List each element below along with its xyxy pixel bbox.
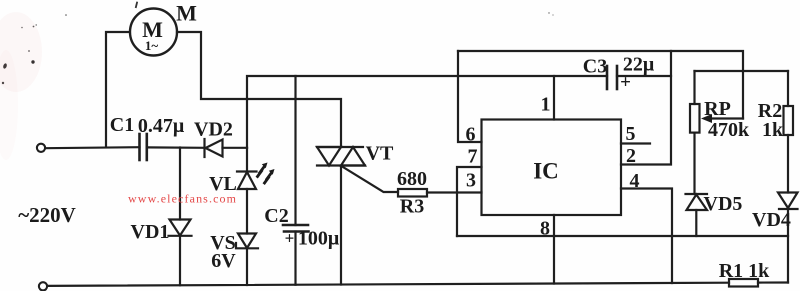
svg-text:6: 6 (466, 124, 476, 146)
label VS 6V (210, 232, 236, 272)
svg-text:470k: 470k (708, 119, 750, 141)
wire: R3 to IC pin 3 (427, 191, 482, 193)
wire: VD2 to node B (223, 147, 248, 149)
wire: RP top to R2 top (695, 70, 789, 72)
svg-text:+: + (620, 72, 631, 93)
svg-text:1k: 1k (762, 119, 784, 141)
svg-text:VD4: VD4 (752, 209, 791, 231)
svg-text:C1: C1 (110, 114, 134, 136)
label C1 0.47u (110, 114, 185, 137)
wire: pin 4 stub down to bottom rail (621, 189, 672, 284)
wire: pin 2 stub up right box rail (621, 51, 671, 165)
svg-text:4: 4 (630, 170, 640, 192)
label R2 1k (758, 100, 784, 141)
svg-text:~220V: ~220V (18, 203, 76, 227)
svg-text:VT: VT (366, 143, 394, 165)
scan specks (decorative) (2, 1, 554, 84)
wire: pin 5 stub (621, 142, 650, 144)
wire: motor right lead to VT top (177, 32, 341, 147)
svg-text:VD5: VD5 (704, 193, 743, 215)
svg-text:1~: 1~ (145, 38, 159, 53)
svg-text:680: 680 (397, 168, 427, 190)
svg-text:5: 5 (626, 123, 636, 145)
wire: motor left lead down to top rail (106, 32, 130, 147)
wire: C1 to VD2 (147, 146, 204, 149)
node: AC input top terminal (37, 144, 45, 152)
wire: node B up and across to C3 (supply line) (247, 76, 607, 148)
diode VD5 (686, 194, 708, 236)
svg-text:R3: R3 (400, 196, 424, 218)
wire: pin 1 to supply line (553, 76, 555, 120)
label C2 + 100u (264, 205, 340, 250)
svg-text:0.47μ: 0.47μ (138, 115, 185, 137)
svg-text:2: 2 (626, 145, 636, 167)
zener VS (236, 234, 258, 286)
wire: bottom rail left of R1 (48, 283, 730, 286)
label RP 470k (704, 98, 750, 141)
LED VL (237, 148, 257, 234)
LED VL light arrows (258, 166, 272, 183)
wire: RP wiper arrow (701, 114, 743, 123)
svg-text:C3: C3 (583, 56, 607, 78)
svg-text:1: 1 (541, 94, 551, 116)
wire: pin 6 stub and left box rail (458, 51, 482, 142)
motor M1 (130, 9, 177, 56)
label M inside motor (142, 17, 163, 53)
triac VT (317, 147, 398, 285)
wire: bottom rail right of R1 (758, 281, 788, 283)
svg-text:100μ: 100μ (298, 228, 340, 250)
node: AC input bottom terminal (39, 282, 47, 290)
wire: lower horizontal net pin7-pin4-VD5-VD4 (457, 235, 788, 237)
potentiometer RP 470k (690, 71, 700, 194)
svg-text:VD1: VD1 (131, 221, 170, 243)
resistor R3 680 (398, 189, 427, 197)
resistor R2 1k (784, 71, 794, 193)
svg-text:R1 1k: R1 1k (719, 260, 770, 282)
capacitor C1 0.47u (140, 134, 147, 160)
svg-text:RP: RP (704, 98, 731, 120)
label 680 / R3 (397, 168, 427, 218)
resistor R1 1k (729, 279, 758, 287)
svg-text:3: 3 (466, 170, 476, 192)
svg-text:8: 8 (540, 218, 550, 240)
label C3 22u + (583, 54, 655, 94)
capacitor C2 100u (283, 76, 309, 285)
svg-text:www.elecfans.com: www.elecfans.com (128, 192, 237, 206)
diode VD2 (205, 139, 223, 157)
svg-text:M: M (176, 1, 197, 26)
op-amp/timer IC U1 box (482, 120, 622, 216)
svg-text:VD2: VD2 (194, 119, 233, 141)
capacitor C3 22u (607, 66, 671, 89)
wire: pin 7 stub down to lower net (457, 167, 482, 236)
svg-text:7: 7 (468, 146, 478, 168)
wire: top rail from terminal to C1 (46, 147, 140, 148)
diode VD1 (169, 148, 192, 286)
svg-text:+: + (285, 229, 295, 248)
svg-text:6V: 6V (211, 250, 236, 272)
wire: pin 8 to bottom rail (553, 215, 555, 284)
svg-text:IC: IC (533, 159, 559, 184)
svg-text:C2: C2 (264, 205, 288, 227)
diode VD4 (778, 193, 798, 283)
wire: top net line pins 2,6 to RP wiper (458, 51, 743, 119)
faint scan tint top-left (decorative) (0, 12, 42, 160)
